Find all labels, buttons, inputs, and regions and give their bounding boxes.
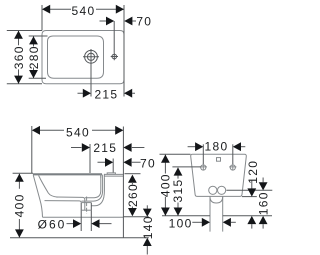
extension line drain centerline (plan): [90, 64, 92, 97]
small square hole (back): [217, 158, 221, 162]
dimension 540 (plan) right arrow: [116, 5, 124, 14]
extension line pipe end level (back): [162, 215, 272, 217]
dimension 100 (back) right tail: [231, 221, 236, 223]
drain outer circle: [85, 50, 98, 63]
right fixing hole ticks (back): [229, 163, 236, 170]
svg-text:70: 70: [140, 157, 156, 171]
dimension 315 (back) top arrow: [174, 167, 183, 175]
dimension 400 (back) line: [164, 155, 166, 216]
dimension 260 (front) bottom arrow: [128, 208, 137, 216]
dimension 400 (back) top arrow: [161, 155, 170, 163]
tap collar bump on deck (front): [107, 173, 115, 174]
trap top box (front): [101, 174, 105, 178]
waste pipe left wall (back): [209, 196, 211, 231]
dimension Ø60 (front) line: [67, 223, 112, 225]
waste pipe right wall (back): [222, 196, 224, 231]
dimension 315 (back) bottom arrow: [174, 208, 183, 216]
dimension 360 (plan) bottom arrow: [14, 76, 23, 84]
dimension 70 (plan) line: [100, 20, 137, 22]
bowl interior back curve (front): [39, 176, 58, 198]
dimension 280 (plan) line: [33, 36, 35, 78]
svg-text:180: 180: [205, 140, 229, 154]
svg-text:120: 120: [246, 160, 260, 184]
dimension 540 (front) left arrow: [32, 126, 40, 135]
dimension 70 (plan) right arrow: [124, 17, 132, 26]
svg-text:540: 540: [72, 4, 96, 18]
body trapezoid (back): [191, 154, 247, 196]
dimension 70 (front) line: [98, 161, 141, 163]
dimension 215 (plan) left arrow: [83, 89, 91, 98]
trap inner curve (front): [85, 175, 101, 198]
dimension 180 (back) left arrow (outside): [195, 142, 203, 151]
dimension 160 (back) upper tail: [262, 178, 264, 183]
extension line outlets level right (back): [226, 189, 272, 191]
dimension 140 (front) upper tail: [146, 205, 148, 209]
tap hole circle: [112, 54, 117, 59]
svg-text:215: 215: [93, 141, 117, 155]
deck double line right (front): [104, 174, 123, 176]
right fixing hole (back): [230, 165, 235, 170]
body bottom edge (front): [43, 216, 124, 218]
body left edge (front): [33, 175, 42, 217]
dimension 120 (back) bottom arrow (outside): [247, 216, 256, 224]
tap hole crosshair: [111, 53, 118, 60]
extension line tap centerline (plan): [113, 21, 115, 53]
extension line drain center x90 (front): [89, 144, 91, 173]
drain spigot centerline dashed (front): [86, 197, 88, 214]
extension line left hole up (back 180): [202, 144, 204, 164]
dimension 400 (front) top arrow: [15, 174, 24, 182]
dimension 120 (back) top arrow (outside): [247, 188, 256, 196]
extension line bowl top to 280 (plan): [29, 35, 48, 37]
dimension Ø60 (front) left arrow: [73, 219, 81, 228]
dimension 260 (front) lower line: [131, 207, 133, 210]
dimension 400 (front) bottom arrow: [15, 229, 24, 237]
left fixing hole ticks (back): [200, 163, 207, 170]
trap middle curve (front): [82, 175, 103, 202]
dimension 280 (plan) top arrow: [29, 36, 38, 44]
dimension 260 (front) tail under top arrow: [131, 182, 133, 185]
dimension 100 (back) left arrow (outside): [202, 218, 210, 227]
svg-text:Ø60: Ø60: [38, 218, 67, 232]
drain spigot left wall / Ø60 extension (front): [80, 203, 82, 231]
dimension 280 (plan) bottom arrow: [29, 70, 38, 78]
drain inner circle: [87, 53, 94, 60]
svg-text:160: 160: [257, 191, 271, 215]
waste pipe shoulder arc (back): [210, 197, 223, 204]
dimension 215 (front) line: [71, 147, 144, 149]
dimension 160 (back) lower tail: [262, 224, 264, 229]
extension line left x31.8 (front): [31, 126, 33, 173]
svg-text:360: 360: [12, 45, 26, 69]
dimension 400 (back) bottom arrow: [161, 208, 170, 216]
dimension 180 (back) right tail: [241, 146, 245, 148]
dimension 100 (back) right arrow (outside): [223, 218, 231, 227]
bowl interior bottom upper line with hook (front): [56, 197, 85, 210]
svg-text:215: 215: [94, 87, 118, 101]
extension line top edge left (back): [160, 153, 191, 155]
drain spigot right wall / Ø60 extension (front): [90, 203, 92, 231]
dimension 215 (plan) right arrow: [124, 89, 132, 98]
dimension 160 (back) top arrow (outside): [259, 182, 268, 190]
right outlet circle (back): [218, 186, 226, 194]
body right edge / waste pipe line (front): [122, 173, 124, 238]
dimension 360 (plan) top arrow: [14, 31, 23, 39]
dimension 215 (front) right arrow: [123, 143, 131, 152]
extension line holes level left (back): [172, 166, 200, 168]
bowl interior bottom lower line with hook (front): [45, 201, 82, 203]
drain crosshair: [83, 49, 99, 64]
svg-text:280: 280: [27, 45, 41, 69]
dimension 120 (back) lower tail: [251, 224, 253, 229]
dimension 140 (front) top arrow (outside): [143, 209, 152, 217]
dimension 70 (front) right arrow: [123, 158, 131, 167]
dimension 540 (front) line: [40, 129, 116, 131]
dimension 70 (front) left arrow: [105, 158, 113, 167]
dimension 400 (front) line: [18, 174, 20, 238]
dimension 160 (back) bottom arrow (outside): [259, 216, 268, 224]
dimension 140 (front) lower tail: [146, 246, 148, 255]
svg-text:315: 315: [171, 179, 185, 203]
bottom extension line y237.8 (front): [10, 237, 149, 239]
dimension 315 (back) line: [177, 168, 179, 216]
extension line right x123.4 (front): [122, 127, 124, 174]
dimension 360 (plan) line: [18, 31, 20, 84]
dimension 540 (front) right arrow: [115, 126, 123, 135]
extension line left of 540 (plan): [41, 5, 43, 31]
rim extension line left (front): [13, 172, 33, 174]
dimension 540 (plan) line: [50, 8, 124, 10]
left fixing hole (back): [201, 165, 206, 170]
left outlet circle (back): [209, 186, 217, 194]
trap outer curve (front): [91, 178, 104, 206]
dimension 540 (plan) left arrow: [42, 5, 50, 14]
dimension 215 (front) left arrow: [82, 143, 90, 152]
extension line y216.8 right (front): [123, 216, 148, 218]
dimension 100 (back) left tail: [192, 221, 202, 223]
extension line tap center x113.2 (front): [112, 159, 114, 173]
dimension 70 (plan) left arrow: [106, 17, 114, 26]
extension line bottom edge right (back): [242, 196, 257, 198]
extension line bowl bottom to 280 (plan): [29, 77, 46, 79]
drain spigot shoulder (front): [81, 202, 91, 204]
extension line top edge to 360 (plan): [7, 30, 42, 32]
inner bowl rounded rectangle: [48, 36, 104, 78]
svg-text:400: 400: [13, 193, 27, 217]
extension line right edge x124 (plan): [123, 5, 125, 97]
dimension 180 (back) right arrow (outside): [233, 142, 241, 151]
dimension Ø60 (front) right arrow: [91, 219, 99, 228]
drain spigot bottom flange (front): [81, 209, 91, 211]
extension line bottom edge to 360 (plan): [7, 83, 42, 85]
svg-text:70: 70: [136, 14, 152, 28]
svg-text:140: 140: [141, 215, 155, 239]
svg-text:100: 100: [169, 216, 193, 230]
rim extension line right y173.7 (front): [125, 173, 141, 175]
dimension 215 (plan) line: [78, 92, 136, 94]
outer rim rectangle: [42, 31, 124, 84]
svg-text:540: 540: [66, 126, 90, 140]
svg-text:260: 260: [126, 183, 140, 207]
dimension 120 (back) upper tail: [251, 181, 253, 189]
dimension 260 (front) top arrow: [128, 175, 137, 183]
dimension 140 (front) bottom arrow (outside): [143, 238, 152, 246]
rim top thick line (front): [33, 173, 102, 175]
dimension 180 (back) left tail: [188, 146, 196, 148]
extension line right hole up (back 180): [232, 144, 234, 164]
